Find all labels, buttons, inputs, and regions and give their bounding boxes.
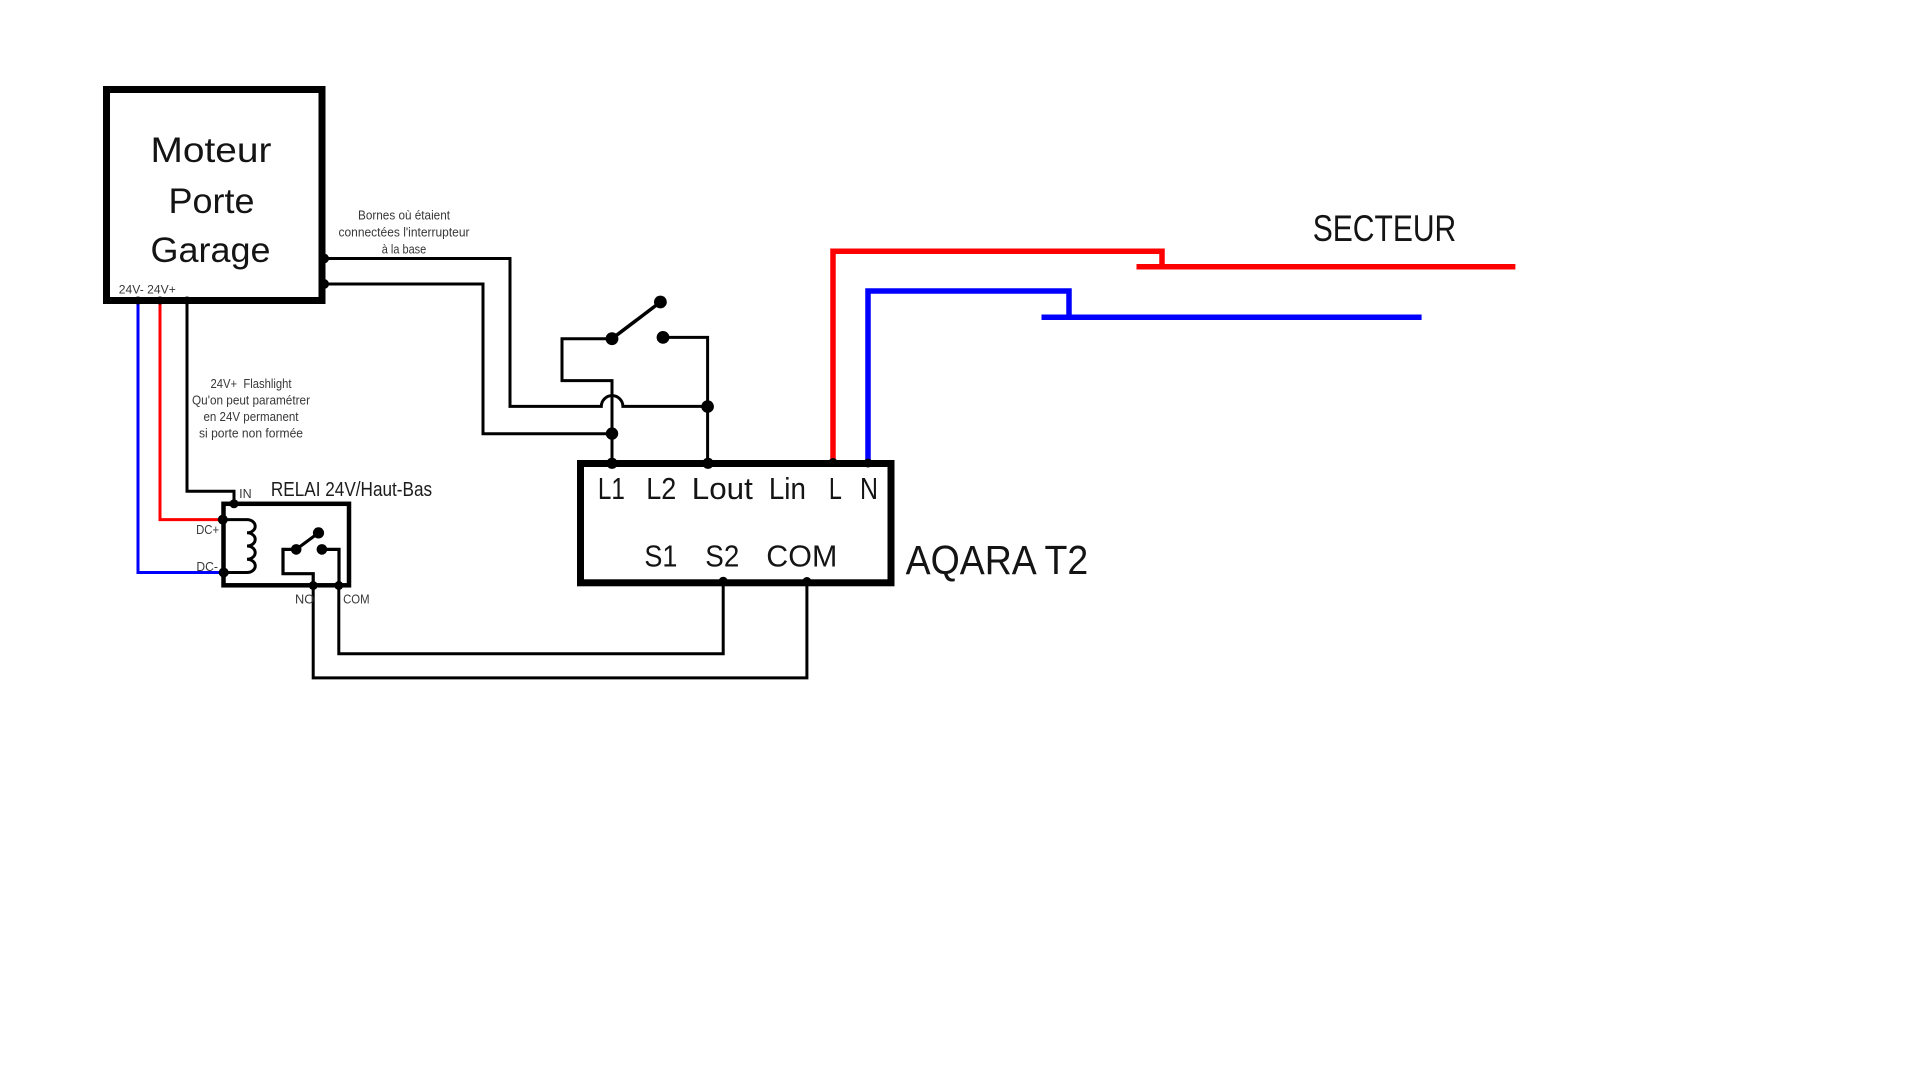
svg-text:COM: COM [343, 592, 370, 607]
svg-text:Garage: Garage [151, 231, 271, 270]
svg-text:AQARA T2: AQARA T2 [906, 537, 1089, 583]
svg-text:Qu'on peut paramétrer: Qu'on peut paramétrer [192, 393, 311, 408]
svg-text:COM: COM [766, 539, 837, 574]
svg-text:L: L [829, 471, 842, 506]
svg-text:Moteur: Moteur [151, 131, 272, 170]
svg-text:L1: L1 [598, 471, 625, 506]
svg-text:24V- 24V+: 24V- 24V+ [119, 283, 176, 297]
svg-text:si porte non formée: si porte non formée [199, 426, 303, 441]
svg-text:RELAI 24V/Haut-Bas: RELAI 24V/Haut-Bas [271, 479, 432, 501]
svg-text:Porte: Porte [169, 182, 255, 221]
svg-text:IN: IN [239, 486, 252, 501]
svg-text:Lin: Lin [769, 471, 806, 506]
svg-text:S2: S2 [705, 539, 739, 574]
svg-text:DC-: DC- [196, 559, 218, 574]
svg-text:à la base: à la base [382, 242, 427, 257]
svg-text:DC+: DC+ [196, 522, 219, 537]
svg-text:Lout: Lout [692, 471, 753, 506]
svg-text:S1: S1 [644, 539, 677, 574]
svg-text:NO: NO [295, 592, 314, 607]
svg-text:Bornes où étaient: Bornes où étaient [358, 207, 450, 222]
svg-text:connectées l'interrupteur: connectées l'interrupteur [339, 224, 471, 239]
svg-text:SECTEUR: SECTEUR [1313, 208, 1457, 249]
svg-text:en 24V permanent: en 24V permanent [204, 409, 299, 424]
svg-text:L2: L2 [646, 471, 676, 506]
svg-text:24V+ Flashlight: 24V+ Flashlight [211, 376, 292, 391]
svg-text:N: N [860, 471, 878, 506]
